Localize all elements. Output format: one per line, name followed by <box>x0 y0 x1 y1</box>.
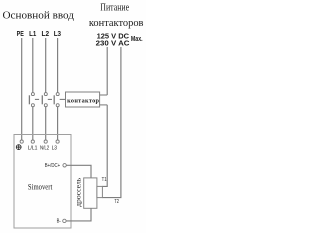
svg-text:125 V DC: 125 V DC <box>97 33 130 40</box>
svg-text:N/L2: N/L2 <box>40 146 49 152</box>
terminal circle L3 <box>56 140 59 143</box>
terminal circle N/L2 <box>44 140 47 143</box>
svg-text:Max.: Max. <box>131 34 143 43</box>
svg-text:Основной ввод: Основной ввод <box>3 10 75 22</box>
svg-text:T1: T1 <box>102 177 107 183</box>
contactor main contact K1.2 (L2) <box>42 93 47 107</box>
wire PE <box>21 38 23 140</box>
mechanical link dashed to coil <box>35 98 66 100</box>
choke box (дроссель) <box>84 178 97 208</box>
wire coil to T1 <box>102 105 107 186</box>
contactor main contact K1.3 (L3) <box>54 93 59 107</box>
svg-text:Simovert: Simovert <box>28 182 53 192</box>
wire coil bottom stub <box>100 104 108 106</box>
wire L1 lower <box>32 107 34 141</box>
thermal contact box on choke <box>97 186 103 197</box>
wire L2 upper <box>45 38 47 93</box>
contactor coil box K1 <box>66 92 100 107</box>
svg-text:230 V AC: 230 V AC <box>96 40 130 47</box>
wire L1 upper <box>32 38 34 93</box>
contactor main contact K1.1 (L1) <box>29 93 34 107</box>
svg-text:L1: L1 <box>29 29 37 38</box>
wire L3 lower <box>57 107 59 141</box>
terminal B- <box>63 219 66 222</box>
svg-text:дроссель: дроссель <box>75 178 83 207</box>
svg-text:L/L1: L/L1 <box>28 146 38 152</box>
title: Питание контакторов <box>89 2 144 29</box>
wire choke bottom to B- <box>66 208 91 221</box>
terminal circle PE <box>20 140 23 143</box>
svg-text:контактор: контактор <box>67 97 99 104</box>
wire L2 lower <box>45 107 47 141</box>
wire coil top stub <box>100 94 108 96</box>
converter box U1 (Simovert) <box>14 135 71 229</box>
wire supply left (to coil) <box>106 47 108 95</box>
PE earth symbol <box>16 145 21 150</box>
svg-text:Питание: Питание <box>100 2 129 13</box>
svg-text:L2: L2 <box>42 29 50 38</box>
svg-text:B+/DC+: B+/DC+ <box>45 163 60 169</box>
terminal circle L/L1 <box>31 140 34 143</box>
svg-text:B-: B- <box>57 219 61 225</box>
svg-text:L3: L3 <box>54 29 61 38</box>
wire L3 upper <box>57 38 59 93</box>
svg-text:PE: PE <box>17 29 24 38</box>
svg-text:контакторов: контакторов <box>89 18 144 29</box>
svg-text:T2: T2 <box>114 199 119 205</box>
wire B+ to choke <box>66 165 91 178</box>
svg-text:L3: L3 <box>52 146 57 152</box>
wire supply right (to T2) <box>102 47 121 198</box>
terminal B+/DC+ <box>63 164 66 167</box>
